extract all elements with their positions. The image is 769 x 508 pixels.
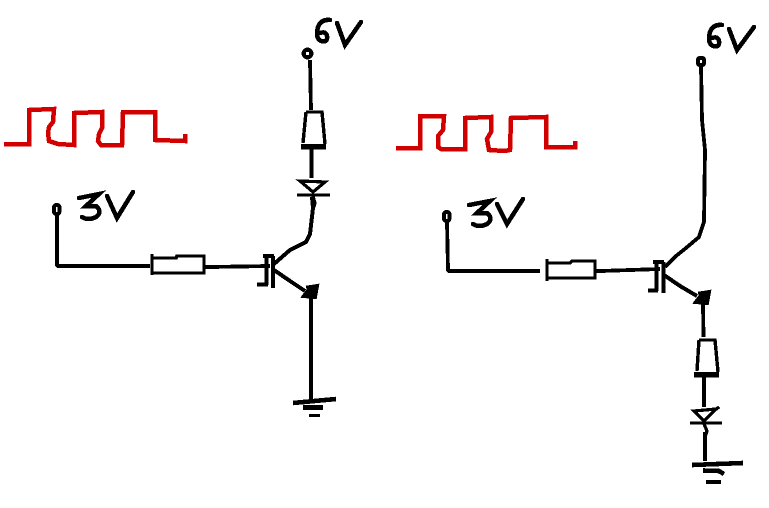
wire emitter to emitter resistor (right) <box>701 303 705 337</box>
wire base resistor to transistor (right) <box>596 269 660 271</box>
label 6V (left) <box>317 20 361 45</box>
resistor R4 emitter (right) <box>694 340 719 375</box>
label 3V (right) <box>469 199 523 226</box>
terminal 3V (left) <box>54 205 60 214</box>
resistor R2 collector (left) <box>301 112 326 147</box>
terminal 3V (right) <box>444 212 450 221</box>
LED D1 (left) <box>297 181 330 207</box>
wire 3V to base resistor (right) <box>447 222 540 271</box>
label 6V (right) <box>709 25 754 50</box>
transistor Q2 <box>648 261 711 304</box>
LED D2 (right) <box>690 407 722 437</box>
label 3V (left) <box>79 192 133 219</box>
resistor R1 base (left) <box>152 254 204 275</box>
terminal 6V (right) <box>698 58 704 65</box>
ground (right) <box>692 463 743 482</box>
wire 6V terminal to collector (right) <box>665 66 705 267</box>
wire emitter to ground (left) <box>309 298 313 403</box>
wire base resistor to transistor (left) <box>205 266 270 267</box>
input square wave (left) <box>6 109 185 145</box>
wire LED to collector resistor (left) <box>310 148 314 178</box>
transistor Q1 <box>257 197 319 298</box>
wire 3V to base resistor (left) <box>57 215 150 266</box>
wire resistor to LED (right) <box>702 377 706 407</box>
input square wave (right) <box>398 116 575 151</box>
ground (left) <box>293 399 336 416</box>
wire LED to ground (right) <box>703 432 707 461</box>
resistor R3 base (right) <box>547 259 595 281</box>
terminal 6V (left) <box>304 50 312 58</box>
wire 6V terminal to resistor (left) <box>310 60 311 110</box>
